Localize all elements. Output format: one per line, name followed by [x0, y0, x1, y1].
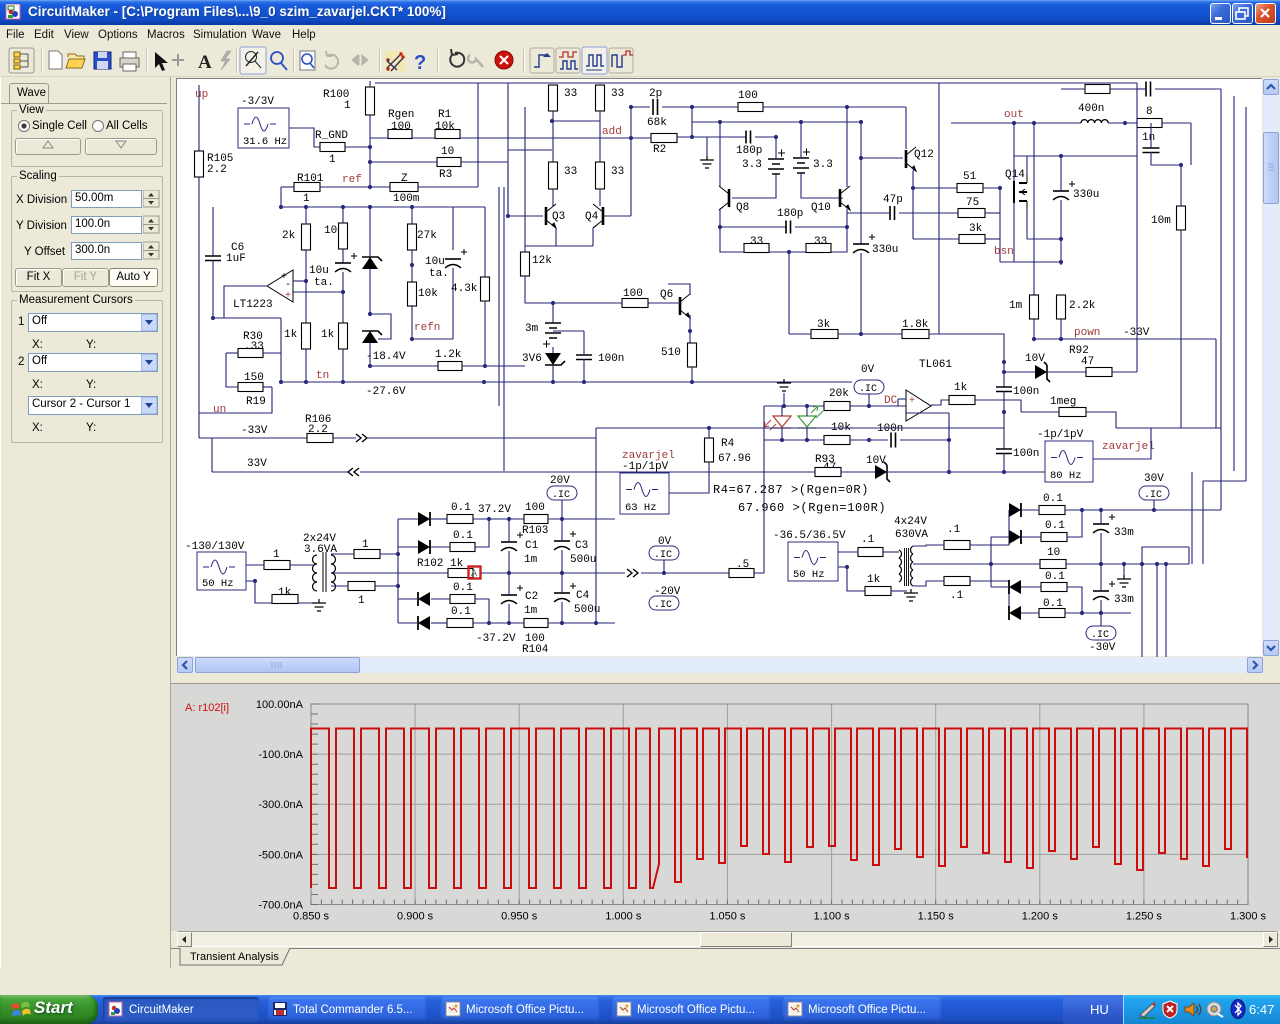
resistor 1k dc: [949, 396, 975, 405]
svg-text:1n: 1n: [1142, 132, 1155, 144]
svg-text:DC: DC: [884, 395, 898, 407]
wire down to rail: [280, 187, 282, 207]
resistor R100: [366, 87, 375, 115]
wire row612: [1065, 612, 1131, 614]
wire row509: [1065, 509, 1221, 511]
wire 10u right top: [452, 207, 454, 250]
svg-text:-36.5/36.5V: -36.5/36.5V: [773, 530, 846, 542]
svg-text:1k: 1k: [954, 382, 968, 394]
wire fb col to tn: [280, 353, 282, 382]
wire Q10 emitter: [846, 209, 848, 227]
wire 100n out: [900, 439, 949, 441]
wire 27k bottom: [411, 250, 413, 282]
resistor 1 c: [348, 582, 375, 591]
transistor Q3: [546, 204, 556, 228]
wire R92 out: [1112, 371, 1137, 373]
wire bus x1233: [1233, 96, 1235, 471]
stub 0V: [663, 560, 665, 573]
wire zener b out: [887, 471, 1004, 473]
zener 3V6: [545, 353, 561, 365]
resistor R102: [448, 569, 473, 578]
wire 2k to 1k: [305, 250, 307, 323]
wire C1 bottom: [508, 551, 510, 573]
junction: [859, 156, 863, 160]
battery 3.3 a: [768, 150, 785, 175]
svg-text:-130/130V: -130/130V: [185, 541, 245, 553]
junction row518: [487, 517, 491, 521]
wire zener1-zener2: [369, 269, 371, 314]
wire 3k left: [913, 238, 959, 240]
resistor 33 c: [744, 244, 769, 253]
wire sec top out: [380, 553, 398, 555]
resistor 51: [957, 184, 983, 193]
svg-text:10k: 10k: [418, 288, 438, 300]
pressed zoom tool: [246, 52, 262, 69]
wire bus x1136: [1136, 83, 1138, 372]
svg-text:ta.: ta.: [314, 277, 334, 289]
stop: [530, 47, 633, 74]
wire da in: [398, 518, 418, 520]
wire batt2 top: [800, 122, 802, 158]
svg-text:?: ?: [414, 52, 426, 74]
resistor 33 b: [596, 85, 605, 111]
svg-text:1k: 1k: [284, 329, 298, 341]
wire 1n out: [1151, 152, 1181, 165]
resistor R3: [437, 158, 461, 167]
resistor R19 150: [238, 383, 263, 392]
wire: [1021, 509, 1039, 511]
junction 33s: [787, 250, 791, 254]
resistor R1: [435, 130, 460, 139]
junction: [1012, 121, 1016, 125]
wire ic20 stub: [561, 500, 563, 519]
resistor 75: [958, 209, 985, 218]
svg-text:100m: 100m: [393, 193, 420, 205]
wire Q14 drain: [1026, 156, 1028, 175]
wire R103 out: [548, 518, 615, 520]
ground psu right: [904, 589, 918, 601]
wire refn join: [412, 338, 453, 340]
stub ic: [868, 394, 870, 406]
resistor 1.2k: [438, 362, 462, 371]
svg-text:63 Hz: 63 Hz: [625, 502, 657, 514]
junction: [1123, 121, 1127, 125]
resistor R93 47: [815, 468, 841, 477]
svg-text:tn: tn: [316, 370, 329, 382]
wire: [1021, 536, 1041, 538]
junction: [279, 205, 283, 209]
junction: [989, 562, 993, 566]
svg-text:33V: 33V: [247, 458, 267, 470]
wire pown down: [1215, 339, 1217, 428]
wire ref: [370, 186, 390, 188]
resistor 0.1 e: [1039, 506, 1065, 515]
junction: [1152, 508, 1156, 512]
svg-text:R4: R4: [721, 438, 735, 450]
wire dg col: [990, 564, 992, 587]
wire src out: [246, 564, 264, 566]
wire 1m bottom: [1033, 319, 1035, 339]
wire -in down: [948, 413, 950, 440]
wire col1013 low: [1013, 203, 1015, 262]
svg-text:330u: 330u: [1073, 189, 1099, 201]
svg-text:.IC: .IC: [654, 600, 672, 611]
svg-text:2.2: 2.2: [207, 164, 227, 176]
svg-text:50 Hz: 50 Hz: [202, 578, 234, 590]
svg-text:10m: 10m: [1151, 215, 1171, 227]
wire dg in: [991, 586, 1009, 588]
junction: [1059, 237, 1063, 241]
wire 4.3k bottom: [484, 301, 486, 366]
resistor 100 mid: [622, 299, 648, 308]
junction: [341, 205, 345, 209]
junction: [718, 225, 722, 229]
wire bus x477: [477, 83, 479, 187]
resistor R92 47: [1086, 368, 1112, 377]
wire C2 top: [508, 573, 510, 595]
wire Q6 e: [689, 315, 691, 331]
svg-text:-300.0nA: -300.0nA: [258, 799, 303, 811]
wire led r bottom: [781, 428, 783, 440]
wire row518: [473, 518, 524, 520]
probe A marker: [469, 567, 481, 579]
wire sec1: [913, 545, 944, 546]
wire row563: [1066, 563, 1189, 565]
junction: [1099, 562, 1103, 566]
svg-text:.1: .1: [861, 534, 875, 546]
svg-text:33m: 33m: [1114, 594, 1134, 606]
svg-text:1: 1: [303, 193, 310, 205]
svg-text:0.1: 0.1: [1045, 520, 1065, 532]
wire 1.8k out: [929, 334, 1004, 362]
svg-text:20V: 20V: [550, 475, 570, 487]
wire -33V cont: [368, 437, 596, 439]
wire emitter rail: [525, 245, 593, 247]
magnifier: [300, 51, 315, 70]
wire 47p left: [847, 212, 890, 214]
svg-text:1.050 s: 1.050 s: [709, 911, 746, 923]
junction: [867, 438, 871, 442]
svg-text:3.3: 3.3: [813, 159, 833, 171]
junction: [845, 225, 849, 229]
junction R3 row: [368, 160, 372, 164]
wire rail 121: [692, 121, 861, 123]
transient analysis tab: [171, 948, 1280, 968]
wire: [1100, 510, 1102, 524]
svg-text:C1: C1: [525, 540, 539, 552]
resistor 1 a: [264, 561, 290, 570]
source -36.5/36.5V: [788, 542, 838, 581]
diode D_e: [1009, 503, 1021, 517]
resistor 10m: [1177, 206, 1186, 230]
wire 3m top: [552, 303, 554, 323]
wire 100 out: [763, 106, 906, 108]
wire sec bot out: [375, 585, 398, 587]
stub 30V: [1153, 500, 1155, 510]
wire R19 right: [263, 386, 272, 388]
diode D_f: [1009, 530, 1021, 544]
undo: [468, 55, 483, 67]
junction: [483, 364, 487, 368]
svg-text:R3: R3: [439, 169, 452, 181]
wire Q6 c: [668, 284, 690, 295]
svg-text:100: 100: [525, 502, 545, 514]
wire batt2 to Q10 base: [801, 173, 843, 198]
resistor 1.8k: [902, 330, 929, 339]
capacitor 330u right: [1053, 181, 1075, 200]
beige strip below schematic scrollbar: [171, 674, 1280, 683]
capacitor top partial: [1146, 82, 1151, 97]
svg-text:ref: ref: [342, 174, 362, 186]
junction: [780, 438, 784, 442]
svg-text:TL061: TL061: [919, 359, 952, 371]
wire 330u r bottom: [1060, 200, 1062, 265]
wire R101 to ref: [320, 186, 370, 188]
junction: [718, 120, 722, 124]
resistor R101: [294, 183, 320, 192]
wire sec mid: [331, 572, 448, 574]
svg-text:-33V: -33V: [1123, 327, 1150, 339]
svg-text:1: 1: [344, 100, 351, 112]
wire 330u r top: [1060, 156, 1062, 191]
junction: [1059, 337, 1063, 341]
capacitor 33m a: [1093, 514, 1115, 533]
svg-text:1.200 s: 1.200 s: [1022, 911, 1059, 923]
resistor 0.1 g: [1041, 583, 1067, 592]
wire 1meg left: [1021, 411, 1059, 413]
wire Q12 emitter col: [913, 168, 914, 239]
wire 1k out: [975, 400, 1021, 412]
LED red D_r: [764, 416, 791, 430]
wire row536: [1067, 510, 1082, 537]
wire R104 out: [548, 622, 615, 624]
svg-text:Q3: Q3: [552, 211, 565, 223]
wire R30 right: [263, 352, 281, 354]
svg-text:-1p/1pV: -1p/1pV: [1037, 429, 1084, 441]
zener 10V bottom: [875, 465, 887, 479]
wire 12k to 100: [525, 276, 553, 303]
resistor 0.1 a: [447, 515, 473, 524]
diode D_a: [418, 512, 430, 526]
wire 8 out: [1162, 122, 1191, 124]
wire 3kb-1.8k: [838, 333, 902, 335]
wire: [342, 207, 344, 223]
.IC marker -30V: [1086, 626, 1116, 640]
save: [94, 52, 111, 69]
svg-text:.IC: .IC: [654, 550, 672, 561]
resistor 27k: [408, 224, 417, 250]
junction: [550, 119, 554, 123]
svg-text:0.1: 0.1: [1045, 571, 1065, 583]
junction ref row: [368, 185, 372, 189]
capacitor C6: [205, 256, 221, 261]
capacitor 330u mid: [853, 234, 875, 253]
wire C4 bottom: [561, 602, 563, 623]
wire fb bottom: [213, 317, 281, 319]
resistor 33 d: [806, 244, 831, 253]
wire bus x498: [498, 187, 500, 406]
wire 3V6 bottom: [552, 365, 554, 382]
svg-text:C3: C3: [575, 540, 588, 552]
wire 2p-68k: [691, 107, 693, 137]
junction: [341, 380, 345, 384]
svg-text:-1p/1pV: -1p/1pV: [622, 461, 669, 473]
wire 1meg right: [1086, 412, 1116, 428]
wire up rail: [198, 85, 200, 151]
wire: [431, 546, 450, 548]
resistor 0.1 h: [1039, 609, 1065, 618]
wire 51 left: [913, 187, 957, 189]
svg-text:1.2k: 1.2k: [435, 349, 462, 361]
wire link a: [1142, 547, 1189, 564]
svg-text:1m: 1m: [524, 554, 538, 566]
axis minor ticks: [311, 704, 1248, 905]
svg-text:C4: C4: [576, 590, 590, 602]
wire R4 top: [708, 428, 710, 438]
red trace r102[i]: [311, 729, 1248, 889]
svg-text:Q8: Q8: [736, 202, 749, 214]
wire Rgen-R1: [412, 137, 435, 139]
svg-text:0.1: 0.1: [1043, 493, 1063, 505]
wire to un rail: [199, 387, 272, 413]
resistor 510: [688, 343, 697, 367]
junction: [1032, 337, 1036, 341]
wire Q8 collector: [719, 122, 721, 187]
resistor 0.1 c: [450, 595, 475, 604]
capacitor 180p mid: [786, 221, 791, 234]
junction: [551, 301, 555, 305]
wire y120 link: [552, 120, 600, 122]
resistor R106: [307, 434, 333, 443]
wire gnd stub: [706, 137, 708, 156]
zoom doc: [300, 51, 315, 70]
wire opamp in+: [293, 291, 343, 293]
ground psu left: [312, 599, 326, 611]
svg-text:47p: 47p: [883, 194, 903, 206]
junction: [1164, 562, 1168, 566]
wire left col b: [763, 440, 765, 472]
menu bar: [0, 25, 1280, 45]
junction: [1032, 121, 1036, 125]
resistor 2k: [302, 224, 311, 250]
wire dd in: [398, 622, 418, 624]
svg-text:-37.2V: -37.2V: [476, 633, 516, 645]
junction: [1099, 611, 1103, 615]
wire: [431, 518, 447, 520]
wire R101 left: [281, 186, 294, 188]
wire df col: [990, 537, 992, 564]
wire 1n in: [1150, 123, 1152, 148]
wire 10m down: [1180, 230, 1182, 428]
junction 68k/2p: [690, 135, 694, 139]
wire to .5 row: [641, 572, 729, 574]
wire: [1021, 612, 1039, 614]
junction: [688, 329, 692, 333]
svg-text:un: un: [213, 404, 226, 416]
junction: [368, 364, 372, 368]
junction: [551, 380, 555, 384]
junction C6/fb: [211, 316, 215, 320]
resistor 1k b: [339, 323, 348, 349]
wire to 10m: [1180, 165, 1182, 206]
junction: [410, 205, 414, 209]
svg-text:A: A: [198, 52, 212, 73]
resistor R2 68k: [651, 134, 677, 143]
transistor Q6: [680, 294, 690, 318]
wire check icon: [385, 51, 405, 71]
wire zener2 loop: [370, 314, 391, 339]
wire 1k b bottom: [342, 349, 344, 382]
junction: [507, 517, 511, 521]
svg-text:1: 1: [358, 595, 365, 607]
wire 100n bottom: [583, 359, 585, 382]
wire 100n top: [583, 331, 585, 355]
wire row546 up: [475, 519, 489, 547]
wire 51 right: [983, 187, 1000, 189]
svg-text:.IC: .IC: [859, 384, 877, 395]
cursor: [172, 54, 184, 66]
junction: [1002, 410, 1006, 414]
svg-text:up: up: [195, 89, 208, 101]
wire to R3: [370, 161, 437, 163]
wire 47p right: [899, 212, 958, 214]
wire link 480: [1203, 480, 1246, 482]
battery 3.3 b: [793, 149, 810, 174]
wire 33a col: [552, 111, 554, 162]
print: [120, 58, 139, 67]
wire C3 bottom: [561, 550, 563, 573]
junction: [304, 205, 308, 209]
source zavarjel 80Hz: [1045, 441, 1093, 482]
lightning: [240, 47, 266, 74]
capacitor C2: [501, 585, 523, 604]
ground dc servo: [777, 379, 791, 391]
svg-text:50 Hz: 50 Hz: [793, 569, 825, 581]
wire 2p out: [662, 106, 692, 108]
system tray: [1123, 995, 1280, 1024]
svg-text:-30V: -30V: [1089, 642, 1116, 654]
wire 4.3k top: [484, 207, 486, 277]
junction R_GND/R100: [368, 145, 372, 149]
wire 33c-33d: [769, 251, 806, 253]
source zavarjel 63Hz: [620, 473, 669, 514]
svg-text:0.1: 0.1: [451, 502, 471, 514]
wire gnd to rail: [783, 393, 785, 406]
wire: [1021, 586, 1041, 588]
svg-text:ta.: ta.: [429, 268, 449, 280]
A: [221, 51, 231, 70]
svg-text:0.1: 0.1: [451, 606, 471, 618]
junction: [1179, 163, 1183, 167]
new: [49, 51, 62, 69]
wire 68k out: [677, 136, 707, 138]
svg-text:R103: R103: [522, 525, 548, 537]
transistor Q4: [593, 204, 603, 228]
wire 33c left: [720, 227, 744, 252]
svg-text:1m: 1m: [1009, 300, 1023, 312]
svg-text:33: 33: [564, 88, 577, 100]
wire rail405: [764, 405, 824, 407]
resistor 10k: [408, 282, 417, 306]
junction: [867, 404, 871, 408]
svg-text:1.100 s: 1.100 s: [814, 911, 851, 923]
svg-text:add: add: [602, 126, 622, 138]
wire 33d right: [831, 227, 847, 252]
junction: [799, 120, 803, 124]
wire out row: [951, 122, 1081, 124]
svg-text:180p: 180p: [736, 145, 762, 157]
wire to 1.2k: [370, 365, 438, 367]
